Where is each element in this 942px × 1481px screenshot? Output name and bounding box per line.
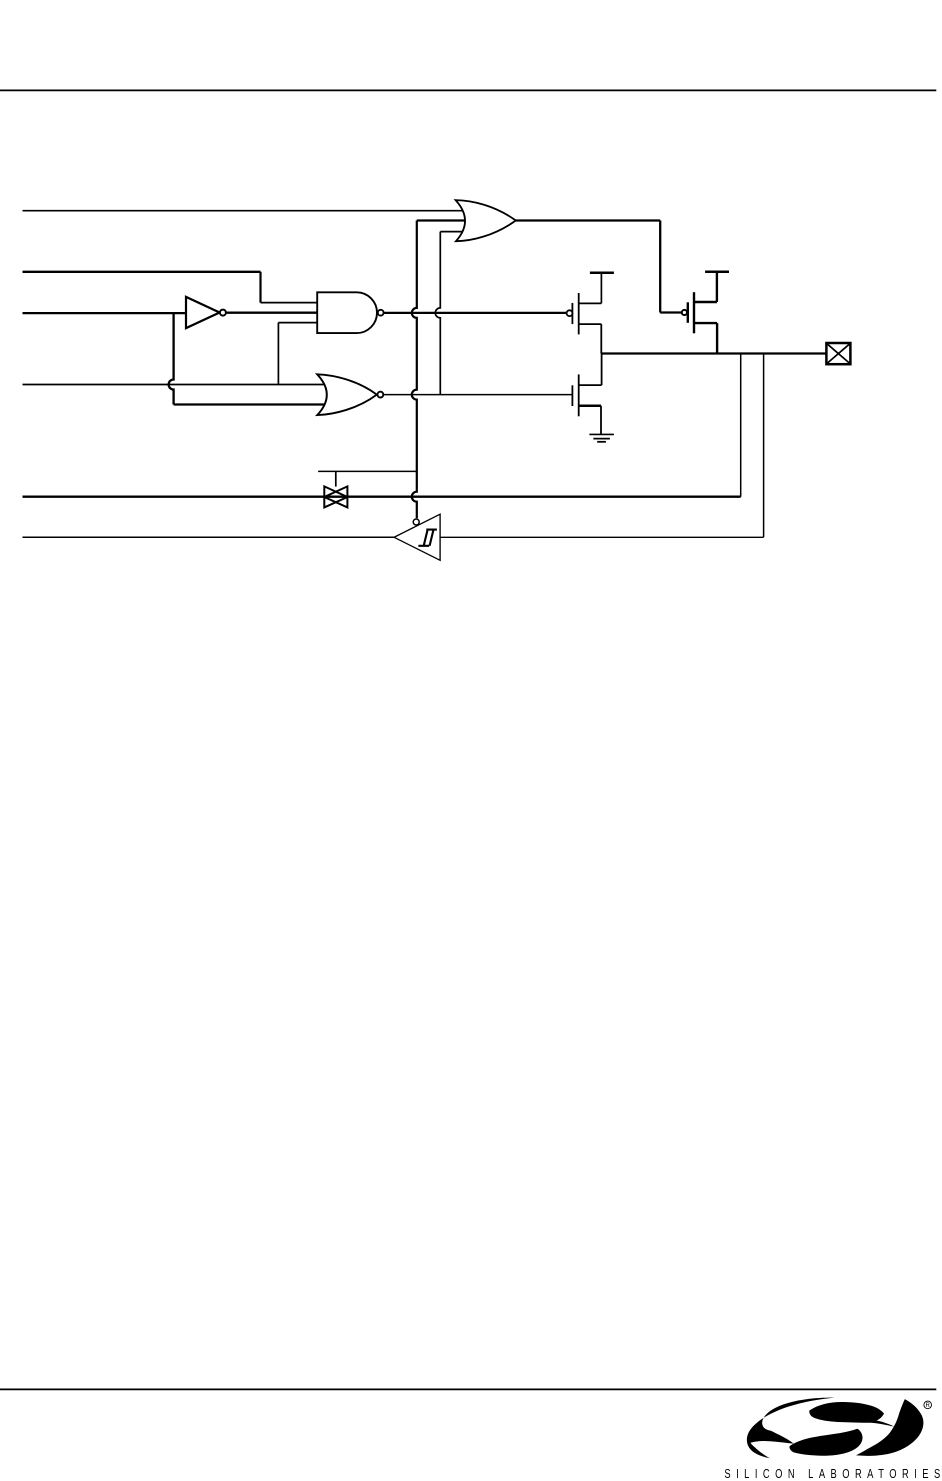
svg-text:R: R [926, 1403, 931, 1409]
svg-text:SILICON LABORATORIES: SILICON LABORATORIES [724, 1467, 940, 1481]
